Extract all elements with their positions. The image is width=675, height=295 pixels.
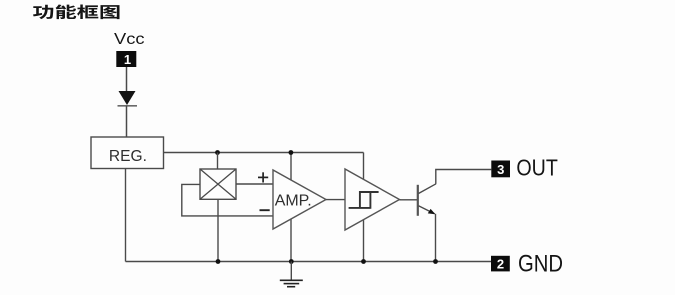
- wire top supply rail (REG to Schmitt corner): [164, 152, 364, 154]
- pin 1 (Vcc): [116, 51, 136, 67]
- svg-text:GND: GND: [518, 251, 563, 278]
- svg-text:1: 1: [124, 52, 131, 67]
- wire AMP output to schmitt input: [326, 199, 345, 201]
- wire schmitt supply vertical (hidden behind U2): [363, 153, 365, 262]
- wire amp supply vertical (hidden behind U1): [290, 153, 292, 262]
- regulator block REG: [91, 137, 164, 169]
- hall element X1: [200, 169, 236, 199]
- schmitt trigger U2: [345, 169, 400, 230]
- pin 3 (OUT): [491, 161, 510, 178]
- junction ground rail / schmitt: [361, 259, 366, 264]
- wire ground rail: [126, 261, 492, 263]
- wire pin1 to diode anode: [126, 67, 128, 92]
- junction ground rail / emitter: [433, 259, 438, 264]
- svg-text:OUT: OUT: [516, 155, 558, 181]
- wire REG bottom to ground rail: [125, 169, 127, 262]
- junction ground rail / amp: [289, 259, 294, 264]
- junction ground rail / hall: [216, 259, 221, 264]
- label + (non-inverting): [258, 172, 268, 182]
- wire Q1 collector to pin 3: [436, 170, 492, 184]
- ground symbol: [280, 262, 303, 287]
- wire hall bias drop: [217, 153, 219, 170]
- wire hall bottom to ground rail: [217, 199, 219, 261]
- svg-text:Vcc: Vcc: [114, 31, 145, 48]
- svg-text:AMP.: AMP.: [275, 193, 312, 210]
- wire schmitt output to Q1 base: [400, 199, 418, 201]
- wire hall right to AMP non-inverting input: [236, 183, 273, 185]
- svg-text:REG.: REG.: [109, 148, 147, 165]
- op-amp U1: [273, 170, 326, 229]
- wire hall left loop to AMP inverting input: [182, 184, 273, 216]
- svg-text:3: 3: [497, 162, 504, 177]
- svg-text:2: 2: [497, 257, 504, 272]
- label - (inverting): [260, 209, 270, 211]
- title 功能框图: [33, 5, 120, 20]
- diode D1: [118, 91, 138, 106]
- pin 2 (GND): [491, 256, 510, 272]
- wire diode cathode to REG: [126, 106, 128, 138]
- junction top rail / amp supply: [289, 150, 294, 155]
- junction top rail / hall bias: [215, 150, 220, 155]
- wire Q1 emitter to ground rail: [435, 214, 437, 262]
- transistor Q1: [418, 184, 436, 216]
